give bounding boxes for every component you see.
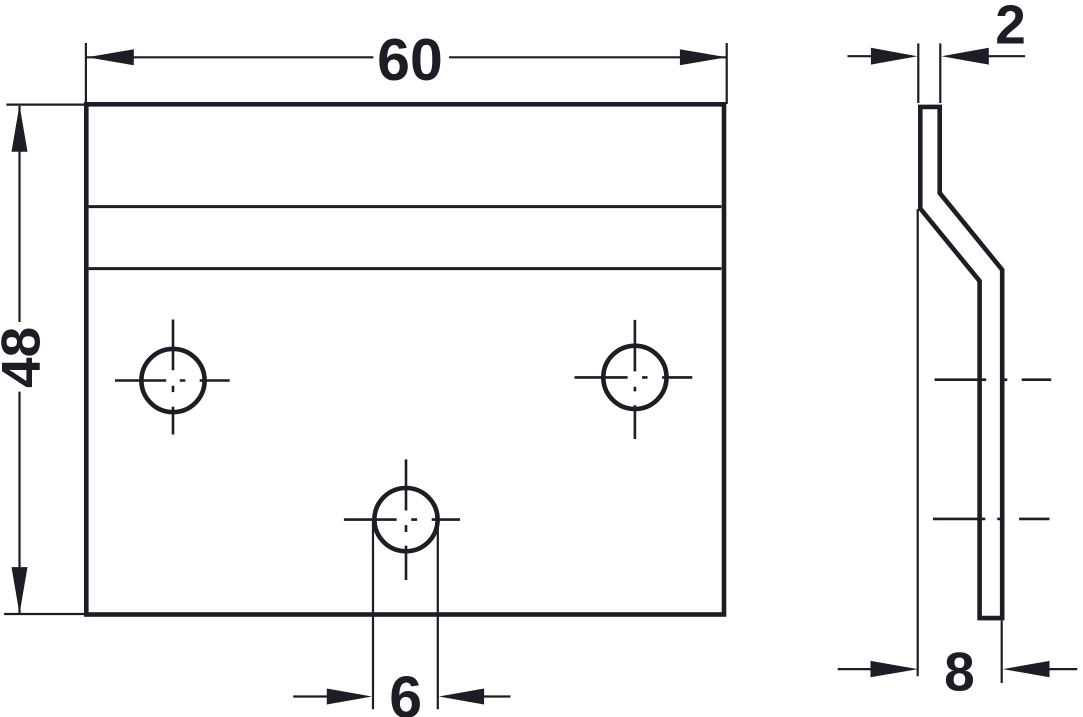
svg-text:2: 2: [995, 0, 1026, 56]
hole left centerline vertical: [172, 320, 175, 435]
dim 48 line bottom segment: [18, 392, 20, 613]
dim 48 line top segment: [18, 106, 20, 322]
dim 2 arrowhead left: [871, 48, 918, 65]
dim 60 extension line left: [85, 43, 87, 104]
svg-text:8: 8: [944, 641, 975, 703]
dim 8 extension line right: [1001, 621, 1003, 684]
front view plate outline: [86, 104, 724, 614]
hole bottom centerline vertical: [405, 459, 408, 580]
hole right centerline horizontal: [575, 376, 693, 379]
dim 8 extension line left: [917, 209, 919, 676]
dim 2 tail right: [988, 55, 1025, 57]
side view hole centerline upper: [935, 378, 1052, 381]
svg-text:60: 60: [377, 27, 443, 93]
hole bottom centerline horizontal: [344, 518, 460, 521]
dim 8 arrowhead left: [871, 661, 918, 677]
hole left centerline horizontal: [115, 379, 230, 382]
hole right centerline vertical: [634, 320, 637, 439]
hole bottom circle: [374, 488, 437, 551]
svg-text:48: 48: [0, 327, 52, 388]
dim 60 arrowhead right: [680, 49, 727, 65]
side view profile outline: [920, 107, 1002, 618]
dim 60 line right segment: [449, 56, 727, 58]
dim 6 extension line right: [437, 520, 439, 710]
dim 60 extension line right: [726, 43, 728, 104]
dim 8 tail left: [838, 668, 872, 670]
dim 2 extension line left: [917, 43, 919, 103]
dim 2 arrowhead right: [942, 48, 989, 65]
hole right circle: [603, 346, 666, 409]
dim 60 arrowhead left: [87, 49, 134, 65]
side view hole centerline lower: [933, 518, 1050, 521]
plate inner horizontal line 2: [89, 267, 722, 270]
dim 6 extension line left: [372, 520, 374, 710]
dim 6 tail left: [293, 695, 328, 697]
dim 48 extension line bottom: [4, 613, 88, 615]
dim 6 tail right: [484, 695, 511, 697]
dim 48 arrowhead up: [12, 105, 28, 152]
dim 2 extension line right: [939, 43, 941, 103]
svg-text:6: 6: [389, 665, 422, 717]
dim 48 arrowhead down: [12, 567, 28, 614]
dim 6 arrowhead left: [327, 689, 372, 705]
dim 2 tail left: [848, 55, 873, 57]
dim 60 line left segment: [87, 56, 373, 58]
hole left circle: [141, 349, 204, 412]
plate inner horizontal line 1: [89, 205, 722, 208]
dim 6 arrowhead right: [439, 689, 484, 705]
dim 8 arrowhead right: [1003, 661, 1050, 677]
dim 48 extension line top: [6, 103, 88, 105]
dim 8 tail right: [1049, 668, 1077, 670]
